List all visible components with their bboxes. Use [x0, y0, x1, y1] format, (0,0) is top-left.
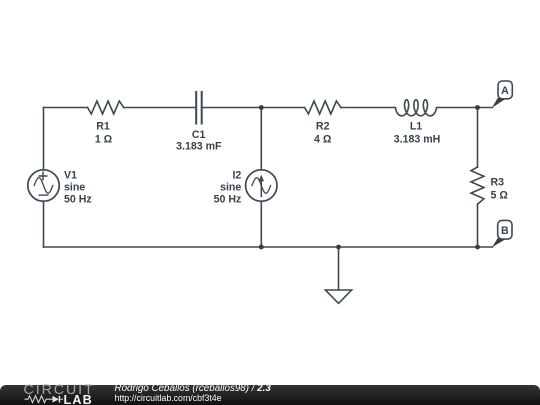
- svg-text:4 Ω: 4 Ω: [314, 133, 332, 145]
- capacitor C1: [196, 92, 202, 124]
- svg-text:I2: I2: [232, 170, 241, 182]
- junction node A: [475, 105, 480, 110]
- wire top-left horizontal (V1 top to R1): [44, 107, 88, 109]
- svg-text:L1: L1: [410, 121, 422, 133]
- footer attribution bar: [0, 385, 540, 405]
- net flag A box: [498, 81, 512, 99]
- wire V1 to bottom: [43, 201, 45, 247]
- resistor R1: [88, 101, 124, 114]
- junction node I2 bottom: [259, 245, 264, 250]
- svg-text:1 Ω: 1 Ω: [95, 133, 113, 145]
- svg-text:3.183 mF: 3.183 mF: [176, 140, 222, 152]
- wire stub to flag A: [478, 107, 493, 109]
- net flag B box: [498, 220, 512, 239]
- inductor L1: [395, 100, 436, 116]
- svg-text:sine: sine: [220, 182, 241, 194]
- attribution line 1: [115, 384, 271, 394]
- svg-text:A: A: [501, 85, 509, 97]
- ground symbol: [325, 290, 351, 303]
- CircuitLab logo wordmark LAB: [64, 394, 93, 405]
- wire L1 to node A junction: [437, 107, 478, 109]
- label L1 value: [394, 121, 441, 146]
- flag pointer A: [492, 98, 506, 108]
- wire R3 to bottom: [477, 204, 479, 247]
- resistor R2: [305, 101, 341, 114]
- svg-text:B: B: [501, 225, 509, 237]
- label R2 value: [314, 121, 332, 146]
- wire R1 to C1: [124, 107, 196, 109]
- label R1 value: [95, 121, 113, 146]
- wire R2 to L1: [341, 107, 396, 109]
- wire I2 to bottom: [260, 201, 262, 247]
- label C1 value: [176, 129, 222, 152]
- svg-text:R1: R1: [96, 121, 110, 133]
- svg-text:R3: R3: [491, 177, 505, 189]
- label V1 value: [64, 170, 92, 206]
- wire stub to flag B: [478, 246, 493, 248]
- svg-text:50 Hz: 50 Hz: [64, 194, 92, 206]
- CircuitLab logo wordmark CIRCUIT: [24, 383, 95, 398]
- svg-text:50 Hz: 50 Hz: [214, 194, 242, 206]
- junction node B: [475, 245, 480, 250]
- svg-text:V1: V1: [64, 170, 77, 182]
- label R3 value: [491, 177, 509, 202]
- wire node to R2: [261, 107, 304, 109]
- wire bottom horizontal: [44, 246, 478, 248]
- label I2 value: [214, 170, 242, 206]
- svg-text:sine: sine: [64, 182, 85, 194]
- wire left vertical top (to V1): [43, 108, 45, 170]
- ground stem wire: [338, 247, 340, 290]
- current source I2: [246, 170, 277, 201]
- junction node ground: [336, 245, 341, 250]
- resistor R3 (vertical): [471, 167, 484, 204]
- svg-text:C1: C1: [192, 129, 206, 141]
- wire C1 to node: [202, 107, 262, 109]
- junction node top C1/I2: [259, 105, 264, 110]
- attribution line 2: [115, 394, 222, 403]
- logo resistor-diode squiggle: [24, 394, 64, 405]
- svg-text:R2: R2: [316, 121, 330, 133]
- svg-text:3.183 mH: 3.183 mH: [394, 133, 441, 145]
- wire I2 branch top: [260, 108, 262, 170]
- svg-text:5 Ω: 5 Ω: [491, 190, 509, 202]
- flag pointer B: [492, 238, 506, 247]
- wire right vertical top (to R3): [477, 108, 479, 168]
- voltage source V1: [28, 170, 59, 201]
